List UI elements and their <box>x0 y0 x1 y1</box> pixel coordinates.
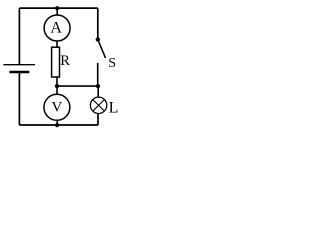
switch S <box>96 37 106 86</box>
wire: top rail junction down to ammeter <box>56 8 58 15</box>
wire: top rail <box>19 7 97 9</box>
resistor R <box>52 47 60 77</box>
wire: ammeter to resistor R <box>56 41 58 47</box>
voltmeter V <box>44 94 70 120</box>
wire: voltmeter top stub from middle junction <box>56 86 58 95</box>
junction: node voltmeter bottom on bottom rail <box>55 123 59 127</box>
ammeter A <box>44 15 70 41</box>
wire: battery positive plate up to top-left corner <box>18 8 20 64</box>
battery B1 <box>3 65 35 72</box>
junction: node at resistor bottom / voltmeter top <box>55 84 59 88</box>
wire: resistor R to middle junction <box>56 77 58 86</box>
svg-text:V: V <box>51 99 62 115</box>
wire: top-right corner down to switch S upper contact <box>97 8 99 39</box>
svg-text:S: S <box>108 56 116 71</box>
lamp L <box>90 97 106 113</box>
wire: bottom rail <box>19 124 98 126</box>
junction: node above ammeter on top rail <box>55 6 59 10</box>
svg-text:L: L <box>109 100 119 117</box>
wire: middle horizontal rail to right junction <box>57 85 98 87</box>
wire: lamp bottom to bottom-right corner <box>97 113 99 125</box>
svg-text:A: A <box>50 20 62 37</box>
svg-text:R: R <box>60 53 70 69</box>
wire: right junction down to lamp <box>97 86 99 97</box>
junction: node switch bottom / lamp top <box>96 84 100 88</box>
wire: bottom-left corner up to battery negative plate <box>18 72 20 125</box>
wire: voltmeter bottom stub to bottom rail <box>56 120 58 125</box>
